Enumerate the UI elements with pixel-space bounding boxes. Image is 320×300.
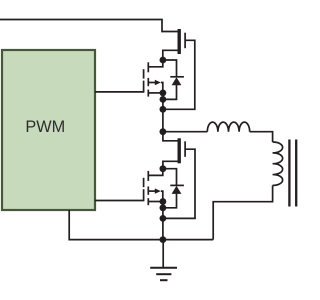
MOSFET M1 gate lead wire bbox=[164, 40, 195, 109]
ground node G bbox=[160, 236, 167, 243]
wire node SW1 to diode D1 cathode bbox=[163, 60, 177, 77]
MOSFET M1 source wire bbox=[163, 50, 178, 60]
node B (D1 anode) bbox=[160, 96, 167, 103]
wire node E to diode D2 cathode bbox=[163, 169, 177, 186]
wire node B2 to node C2 bbox=[162, 208, 164, 219]
MOSFET M4 body to source bend bbox=[161, 191, 163, 201]
diode D1 anode wire to node B bbox=[164, 85, 177, 99]
MOSFET M4 gate wire from PWM bbox=[95, 200, 144, 202]
MOSFET M3 source wire bbox=[163, 161, 178, 168]
MOSFET M2 channel dash top bbox=[147, 62, 149, 72]
diode D1 cathode bar bbox=[170, 76, 184, 78]
MOSFET M4 channel dash middle bbox=[147, 187, 149, 195]
ground rail wire bbox=[163, 239, 213, 241]
MOSFET M3 drain wire from node D bbox=[163, 132, 178, 141]
node C (M1 gate return) bbox=[160, 106, 167, 113]
node C2 (M3 gate return) bbox=[160, 215, 167, 222]
MOSFET M1 gate plate bbox=[184, 33, 186, 49]
MOSFET M4 gate line bbox=[143, 178, 145, 187]
MOSFET M4 channel dash bottom bbox=[147, 198, 149, 205]
MOSFET M3 gate plate bbox=[184, 141, 186, 157]
diode D1 triangle bbox=[172, 77, 182, 85]
top rail wire (input) bbox=[0, 20, 178, 32]
wire node A to node B bbox=[162, 93, 164, 100]
PWM controller box U1 bbox=[2, 50, 95, 210]
MOSFET M2 source stub bbox=[148, 92, 163, 94]
MOSFET M4 body stub with arrow bbox=[148, 190, 157, 192]
node A2 (M4 source) bbox=[160, 198, 167, 205]
MOSFET M4 source stub bbox=[148, 201, 163, 203]
wire L1 to transformer T1 bbox=[250, 132, 273, 142]
MOSFET M2 gate wire from PWM bbox=[95, 91, 144, 93]
MOSFET M2 drain stub bbox=[148, 61, 163, 67]
MOSFET M2 gate line bbox=[143, 69, 145, 78]
node B2 (D2 anode) bbox=[160, 204, 167, 211]
MOSFET M2 body to source bend bbox=[161, 83, 163, 93]
wire T1 primary return bbox=[213, 185, 272, 239]
MOSFET M2 body stub with arrow bbox=[148, 82, 157, 84]
wire node C2 to ground node bbox=[162, 218, 164, 239]
MOSFET M4 drain stub bbox=[148, 170, 163, 176]
diode D2 anode wire to node B2 bbox=[164, 194, 177, 208]
wire node B to node C bbox=[162, 99, 164, 109]
node A (M2 source) bbox=[160, 90, 167, 97]
MOSFET M2 channel dash middle bbox=[147, 78, 149, 86]
diode D2 cathode bar bbox=[170, 184, 184, 186]
node E (M3 source / M4 drain) bbox=[160, 165, 167, 172]
MOSFET M4 channel dash top bbox=[147, 171, 149, 181]
MOSFET M1 channel bar bbox=[177, 29, 180, 54]
inductor L1 bbox=[207, 122, 249, 132]
transformer T1 primary winding bbox=[273, 142, 283, 185]
diode D2 triangle bbox=[172, 186, 182, 194]
PWM ground wire bbox=[69, 210, 163, 240]
node D (switch node to inductor) bbox=[160, 128, 167, 135]
ground symbol bbox=[162, 240, 164, 268]
MOSFET M2 channel dash bottom bbox=[147, 90, 149, 97]
wire node C to node D bbox=[162, 109, 164, 131]
transformer T1 core bars bbox=[288, 140, 290, 207]
svg-text:PWM: PWM bbox=[25, 118, 65, 136]
MOSFET M3 gate lead wire bbox=[164, 149, 195, 218]
wire node D to inductor L1 bbox=[163, 131, 207, 133]
wire node A2 to node B2 bbox=[162, 202, 164, 208]
MOSFET M3 channel bar bbox=[177, 138, 180, 163]
node SW1 (M1 source / M2 drain) bbox=[160, 57, 167, 64]
